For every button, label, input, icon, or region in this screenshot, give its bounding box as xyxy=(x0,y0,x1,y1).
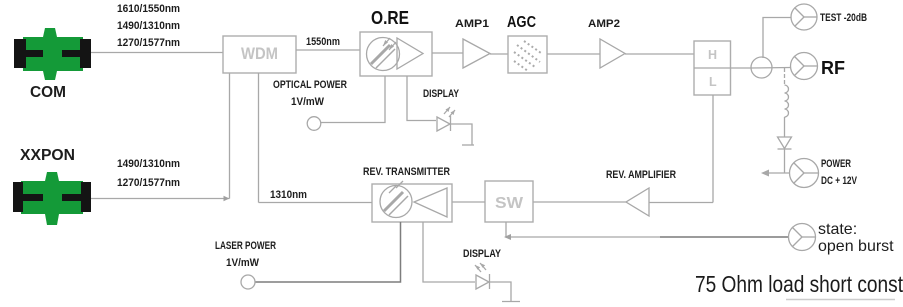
svg-text:1V/mW: 1V/mW xyxy=(226,257,260,269)
svg-text:POWER: POWER xyxy=(821,158,851,170)
svg-text:DC + 12V: DC + 12V xyxy=(821,175,857,187)
LED D3 xyxy=(475,263,490,289)
diplexer H/L box xyxy=(694,41,731,95)
wire down to REV amplifier xyxy=(649,202,713,204)
svg-text:1270/1577nm: 1270/1577nm xyxy=(117,177,180,189)
amplifier REV (points left) xyxy=(626,188,649,216)
attenuator dots inside AGC xyxy=(514,41,541,71)
svg-text:COM: COM xyxy=(30,84,66,101)
wire diplexer L output down xyxy=(712,95,714,203)
wire riser up to WDM xyxy=(229,73,231,199)
wire REV amp to SW xyxy=(533,201,626,203)
svg-text:LASER POWER: LASER POWER xyxy=(215,240,276,252)
connector TEST xyxy=(791,4,817,30)
svg-text:RF: RF xyxy=(821,58,845,78)
svg-text:XXPON: XXPON xyxy=(20,147,75,164)
test point circle OPTICAL POWER xyxy=(307,117,321,131)
connector XXPON (SC/APC adapter) xyxy=(13,172,91,225)
svg-text:open burst: open burst xyxy=(818,238,894,255)
svg-text:OPTICAL POWER: OPTICAL POWER xyxy=(273,79,347,91)
laser diode inside transmitter xyxy=(380,181,412,218)
REV transmitter box xyxy=(372,184,452,222)
wire SW to REV transmitter xyxy=(452,201,485,203)
photodiode inside O.RE xyxy=(367,38,400,71)
svg-text:1V/mW: 1V/mW xyxy=(291,96,325,108)
wire O.RE bottom to optical power test point xyxy=(321,76,385,123)
svg-text:state:: state: xyxy=(818,221,857,238)
diode D2 xyxy=(778,137,792,149)
wire WDM 1310nm return riser xyxy=(258,73,260,203)
wire AGC to AMP2 xyxy=(547,53,600,55)
connector COM (SC/APC adapter) xyxy=(14,28,91,80)
wire O.RE to AMP1 xyxy=(432,52,463,54)
wire WDM to O.RE xyxy=(296,49,360,51)
wire LED D1 to stub xyxy=(451,124,472,145)
wire SW to state connector xyxy=(506,222,660,237)
arrowhead at WDM riser junction xyxy=(224,196,230,201)
arrowhead at SW corner xyxy=(504,234,511,240)
svg-text:AMP1: AMP1 xyxy=(455,18,489,30)
svg-text:AGC: AGC xyxy=(507,14,536,31)
svg-text:1310nm: 1310nm xyxy=(270,189,307,201)
WDM box xyxy=(223,36,296,73)
LED D1 xyxy=(437,107,455,131)
underline artifact xyxy=(786,299,895,301)
svg-text:L: L xyxy=(709,75,717,89)
svg-text:1490/1310nm: 1490/1310nm xyxy=(117,20,180,32)
stub bar xyxy=(462,144,474,146)
svg-text:O.RE: O.RE xyxy=(371,8,409,28)
svg-text:75 Ohm load short const: 75 Ohm load short const xyxy=(695,271,903,297)
wire diode to POWER xyxy=(784,149,786,173)
wire coupler tap to TEST xyxy=(763,18,791,59)
wire AMP1 to AGC xyxy=(490,53,508,55)
svg-text:TEST -20dB: TEST -20dB xyxy=(820,12,867,24)
amplifier AMP1 xyxy=(463,39,490,68)
connector STATE xyxy=(789,224,816,251)
wire LED D3 to stub xyxy=(490,282,511,301)
switch SW box xyxy=(485,181,533,222)
inductor L1 xyxy=(785,85,789,117)
amplifier triangle inside transmitter (points left) xyxy=(414,188,447,217)
svg-text:WDM: WDM xyxy=(241,45,278,63)
amplifier triangle inside O.RE xyxy=(397,38,423,69)
wire transmitter to laser power test point xyxy=(255,222,401,282)
svg-text:REV. AMPLIFIER: REV. AMPLIFIER xyxy=(606,169,676,181)
amplifier AMP2 xyxy=(600,39,625,68)
coupler xyxy=(751,57,790,78)
svg-text:SW: SW xyxy=(495,195,524,212)
wire inductor to diode xyxy=(784,117,786,137)
wire transmitter to display LED 2 xyxy=(423,222,475,282)
wire diplexer to coupler xyxy=(731,67,752,69)
connector RF xyxy=(791,53,818,80)
svg-text:1490/1310nm: 1490/1310nm xyxy=(117,158,180,170)
wire transmitter to WDM (1310nm) xyxy=(259,202,373,204)
wire XXPON to WDM vertical riser xyxy=(91,198,230,200)
svg-text:DISPLAY: DISPLAY xyxy=(463,248,502,260)
wire COM to WDM xyxy=(91,52,223,54)
test point circle LASER POWER xyxy=(241,275,255,289)
plug arrow xyxy=(761,170,769,177)
wire RF branch down to inductor xyxy=(784,68,786,85)
wire O.RE bottom to display LED xyxy=(407,76,436,121)
svg-text:AMP2: AMP2 xyxy=(588,18,620,30)
svg-text:H: H xyxy=(708,48,717,62)
AGC box xyxy=(508,36,547,73)
svg-text:DISPLAY: DISPLAY xyxy=(423,88,460,100)
svg-text:1550nm: 1550nm xyxy=(306,36,340,48)
connector POWER xyxy=(790,159,819,188)
svg-text:1270/1577nm: 1270/1577nm xyxy=(117,37,180,49)
O.RE box xyxy=(360,32,432,76)
stub bar lower xyxy=(502,301,520,303)
wire AMP2 to diplexer xyxy=(625,53,694,55)
svg-text:1610/1550nm: 1610/1550nm xyxy=(117,3,180,15)
svg-text:REV. TRANSMITTER: REV. TRANSMITTER xyxy=(363,166,450,178)
